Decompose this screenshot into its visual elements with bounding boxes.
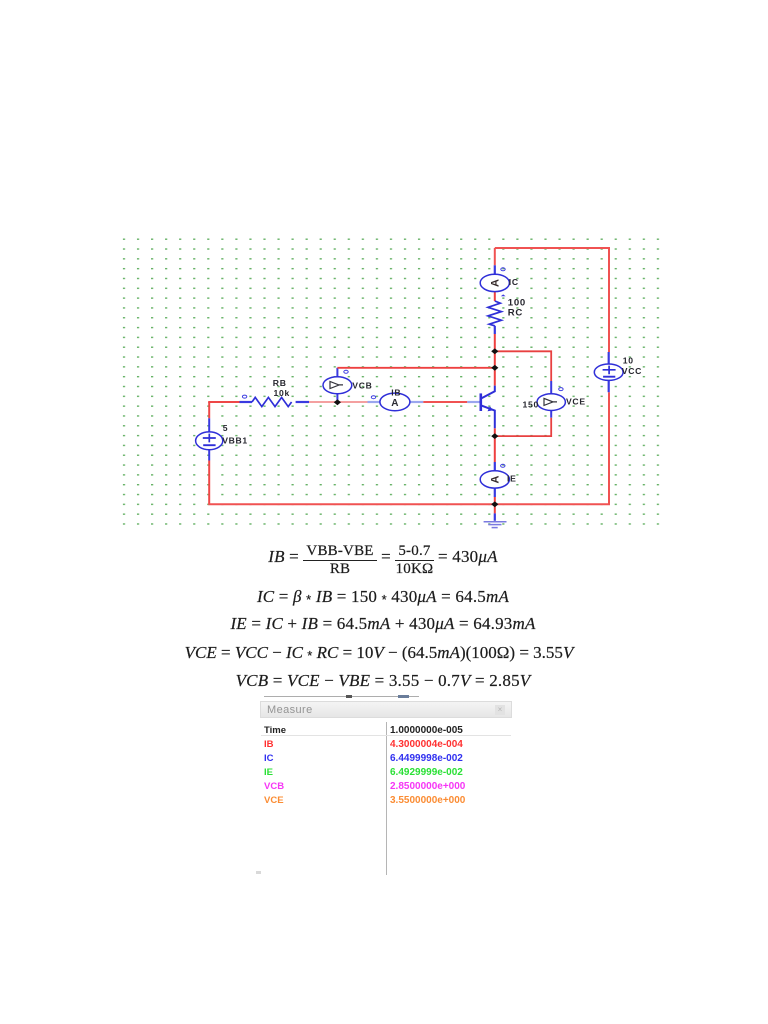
voltage source VBB1	[196, 432, 223, 450]
polarity mark IE	[501, 464, 505, 467]
junction node: collector/VCB	[491, 365, 498, 371]
wire: ground node to ground symbol	[494, 504, 496, 513]
row IE	[264, 767, 273, 778]
wire: VCE loop top	[495, 351, 551, 381]
svg-text:10k: 10k	[274, 388, 290, 398]
row VCB	[264, 781, 284, 792]
equation line 2: IC	[0, 588, 766, 608]
voltmeter VCE	[537, 394, 565, 411]
svg-text:A: A	[490, 279, 502, 287]
svg-text:VCE: VCE	[566, 397, 586, 407]
wire: RB left lead	[240, 401, 253, 403]
wire: VBB1 top lead	[208, 418, 210, 432]
wire: collector node to transistor	[494, 368, 496, 386]
resistor RC	[488, 301, 501, 326]
wire: VCE meter top lead	[550, 381, 552, 394]
voltmeter VCB	[323, 377, 352, 394]
transistor Q1 collector	[481, 386, 495, 399]
wire: base rail from VBB1	[208, 401, 239, 403]
polarity mark IC	[501, 268, 505, 271]
row IC	[264, 753, 274, 764]
wire: VCC top lead	[608, 352, 610, 364]
wire: IB ammeter left lead	[368, 401, 381, 403]
svg-text:IE: IE	[507, 474, 517, 484]
ground	[484, 513, 507, 527]
ammeter IC	[480, 274, 509, 291]
transistor Q1 emitter with arrow	[481, 405, 495, 428]
wire: RC to collector node	[494, 334, 496, 368]
equation line 3: IE	[0, 615, 766, 632]
wire: IE ammeter bottom lead	[494, 488, 496, 497]
wire: left loop vertical (VBB1 branch)	[208, 402, 210, 418]
polarity mark IB	[371, 396, 375, 399]
svg-text:RB: RB	[273, 378, 287, 388]
svg-text:IB: IB	[391, 387, 401, 397]
junction node: emitter/VCE bottom	[491, 433, 498, 439]
junction node: collector/VCE top	[491, 348, 498, 354]
voltage source VCC	[594, 364, 623, 380]
wire: IE to ground node	[494, 497, 496, 504]
wire: VCC bottom lead	[608, 380, 610, 392]
wire: IB ammeter right lead	[410, 401, 424, 403]
svg-text:VBB1: VBB1	[222, 436, 248, 446]
separator under Time row	[261, 735, 511, 736]
wire: emitter to IE	[494, 428, 496, 462]
row Time	[264, 725, 286, 736]
column divider	[386, 722, 387, 875]
wire: VCB meter top lead	[336, 368, 338, 377]
polarity mark RB	[242, 395, 246, 398]
wire: IC ammeter to RC	[494, 291, 496, 301]
wire: VCB node to collector node	[337, 367, 494, 369]
ammeter IB	[380, 393, 410, 411]
svg-text:10: 10	[623, 355, 634, 365]
wire: VCE loop bottom	[495, 418, 551, 436]
row IB	[264, 739, 274, 750]
svg-text:A: A	[391, 398, 398, 409]
svg-text:VCC: VCC	[622, 366, 642, 376]
wire: right vertical below VCC	[608, 392, 610, 504]
wire: collector branch top	[494, 248, 496, 265]
svg-text:A: A	[490, 475, 502, 483]
wire: top horizontal rail	[495, 247, 610, 249]
measure window bottom-left remnant	[256, 871, 261, 874]
measure table	[260, 718, 512, 878]
wire: left vertical below VBB1	[208, 461, 210, 505]
wire: IB to transistor base	[423, 401, 467, 403]
equation line 5: VCB	[0, 672, 766, 689]
svg-text:5: 5	[223, 423, 228, 433]
wire: IE ammeter top lead	[494, 462, 496, 471]
equation line 4: VCE	[0, 644, 762, 664]
equation line 1: IB	[0, 541, 766, 575]
wire: right vertical above VCC	[608, 248, 610, 352]
polarity mark VCB	[344, 370, 348, 373]
grid background	[118, 237, 661, 533]
transistor Q1 base bar	[479, 393, 482, 411]
wire: VCB meter bottom lead	[336, 394, 338, 403]
wire: bottom horizontal rail	[208, 503, 610, 505]
svg-text:RC: RC	[508, 308, 523, 319]
wire: RB right lead	[296, 401, 309, 403]
wire: IC ammeter top lead	[494, 265, 496, 274]
svg-text:VCB: VCB	[352, 381, 372, 391]
junction node: base/VCB	[334, 399, 341, 405]
junction node: ground rail	[491, 501, 498, 507]
measure window top edge	[264, 696, 419, 697]
svg-text:IC: IC	[509, 277, 519, 287]
wire: transistor base lead	[467, 401, 480, 403]
measure window title bar	[260, 701, 512, 718]
wire: VCE meter bottom lead	[550, 410, 552, 417]
polarity mark RC	[501, 294, 506, 296]
wire: RC bottom lead	[494, 326, 496, 334]
polarity mark VCE	[559, 388, 563, 391]
wire: RB to IB (through VCB node)	[309, 401, 368, 403]
wire: VBB1 bottom lead	[208, 450, 210, 461]
resistor RB	[252, 397, 292, 406]
row VCE	[264, 795, 284, 806]
svg-text:150: 150	[523, 399, 539, 409]
ammeter IE	[480, 471, 509, 488]
